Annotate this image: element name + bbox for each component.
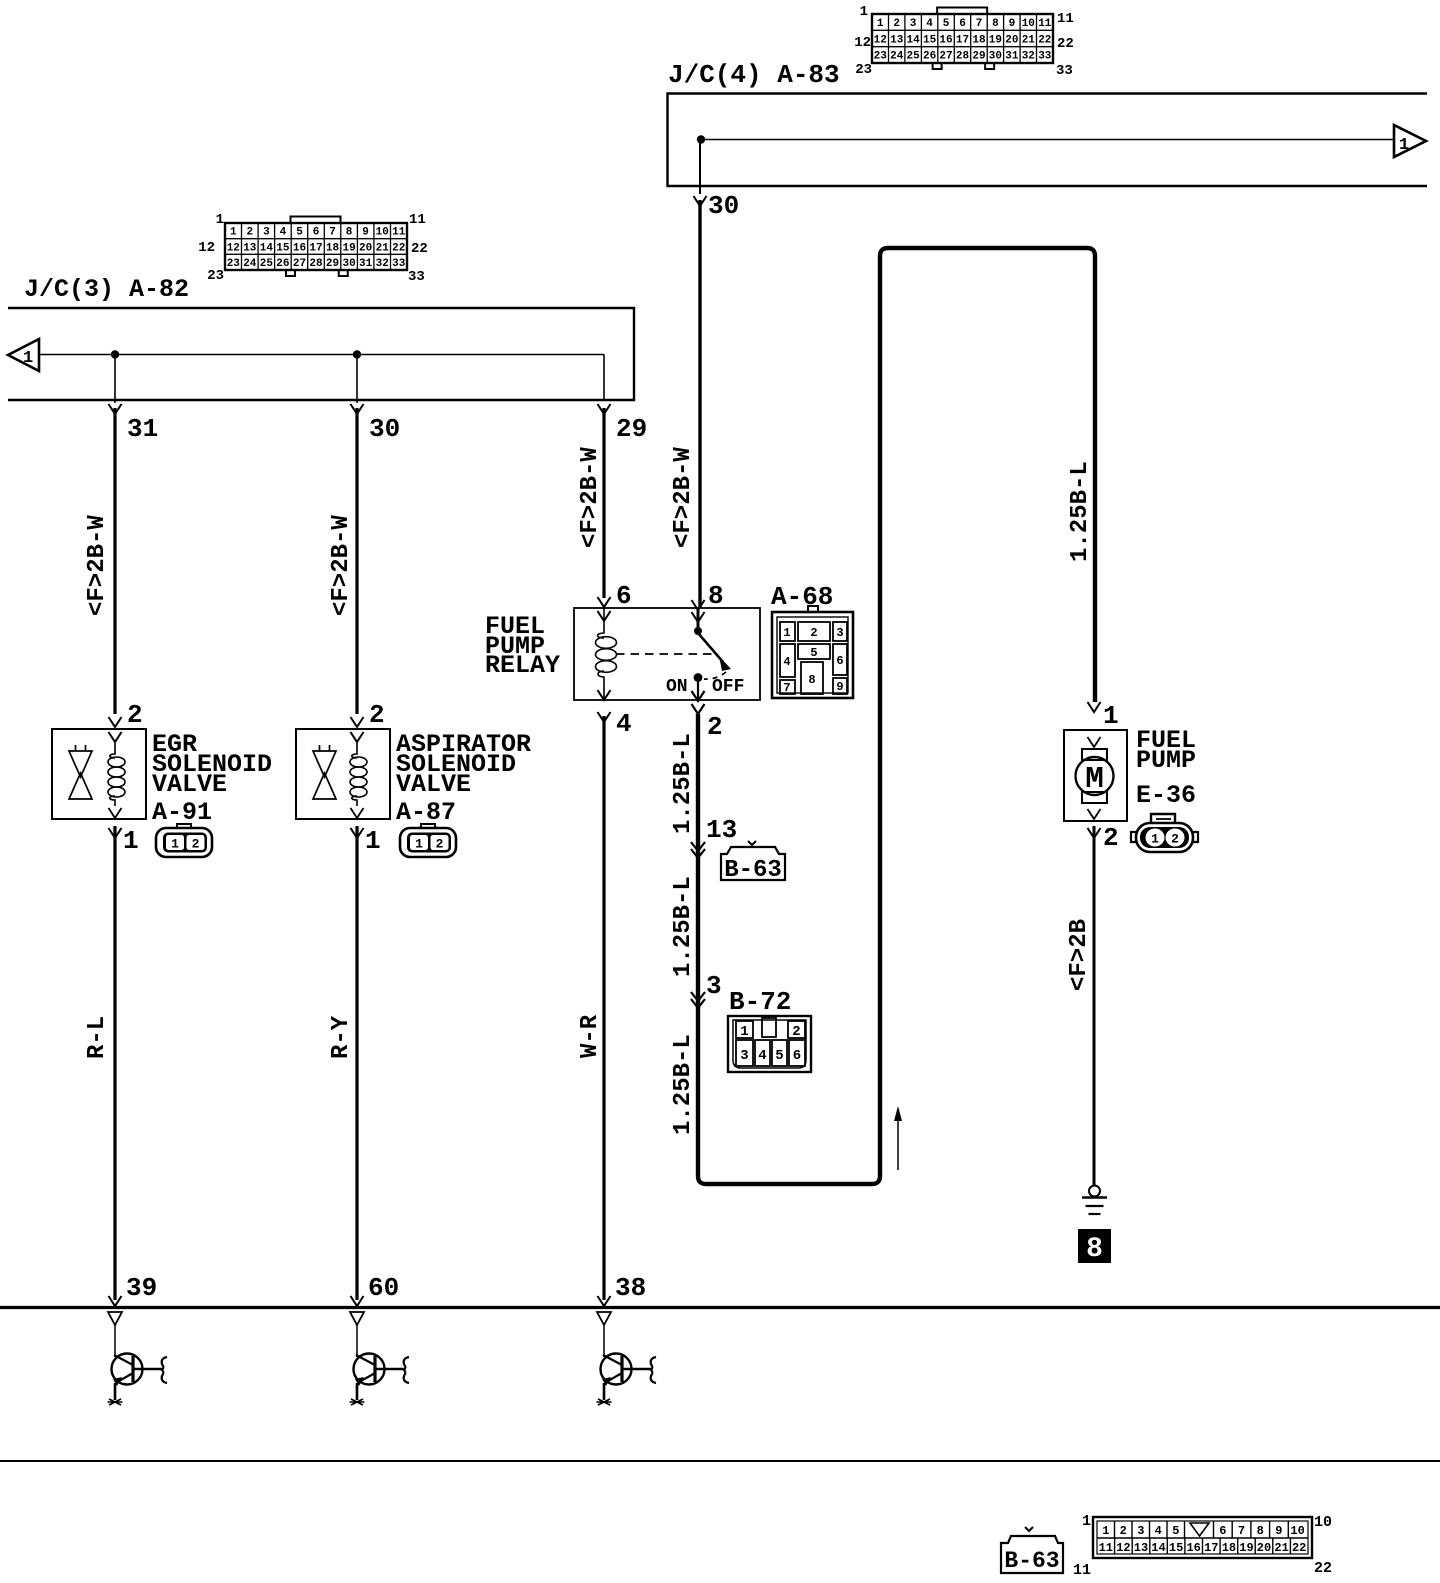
svg-text:7: 7: [976, 18, 983, 30]
svg-text:24: 24: [890, 51, 904, 63]
svg-text:8: 8: [346, 227, 353, 239]
svg-text:A-91: A-91: [152, 798, 212, 827]
svg-text:7: 7: [1238, 1524, 1245, 1538]
wire pin 29 of A-82 down to relay pin 6: [598, 404, 611, 607]
junction 13 (inline connector B-63): [691, 842, 705, 858]
label ASPIRATOR SOLENOID VALVE A-87: [396, 730, 531, 827]
svg-text:1: 1: [877, 18, 884, 30]
svg-text:15: 15: [923, 34, 937, 46]
svg-text:23: 23: [855, 62, 872, 78]
svg-text:19: 19: [1239, 1541, 1253, 1555]
svg-text:4: 4: [758, 1048, 766, 1064]
svg-text:22: 22: [1038, 34, 1051, 46]
svg-text:W-R: W-R: [577, 1014, 604, 1058]
fuel pump pin arrow 1: [1088, 702, 1101, 712]
svg-text:21: 21: [1274, 1541, 1288, 1555]
svg-text:B-72: B-72: [729, 987, 791, 1017]
svg-text:2: 2: [127, 700, 143, 730]
svg-text:6: 6: [313, 227, 320, 239]
svg-text:1: 1: [1399, 136, 1409, 155]
svg-text:31: 31: [359, 258, 373, 270]
svg-text:4: 4: [926, 18, 933, 30]
svg-text:13: 13: [706, 815, 737, 845]
svg-text:22: 22: [411, 241, 428, 257]
connector icon E-36 (1|2): [1131, 814, 1198, 852]
svg-text:11: 11: [409, 212, 426, 228]
ECU boundary line (bottom): [0, 1460, 1440, 1462]
svg-text:5: 5: [810, 646, 817, 660]
svg-text:22: 22: [1314, 1560, 1332, 1577]
svg-text:26: 26: [923, 51, 936, 63]
svg-text:8: 8: [708, 581, 724, 611]
svg-text:4: 4: [280, 227, 287, 239]
svg-text:A-87: A-87: [396, 798, 456, 827]
svg-text:22: 22: [1057, 36, 1074, 52]
svg-text:8: 8: [1257, 1524, 1264, 1538]
svg-text:14: 14: [906, 34, 920, 46]
svg-text:11: 11: [1073, 1562, 1091, 1578]
svg-text:<F>2B: <F>2B: [1066, 919, 1093, 991]
svg-text:1: 1: [1102, 1524, 1109, 1538]
svg-text:17: 17: [309, 242, 322, 254]
svg-text:5: 5: [775, 1048, 783, 1064]
svg-text:21: 21: [1022, 34, 1036, 46]
svg-text:30: 30: [369, 414, 400, 444]
svg-text:27: 27: [293, 258, 306, 270]
svg-text:27: 27: [939, 51, 952, 63]
svg-text:22: 22: [1292, 1541, 1306, 1555]
bus A-82 junction block: [8, 308, 634, 400]
svg-text:32: 32: [1022, 51, 1035, 63]
svg-text:13: 13: [243, 242, 257, 254]
wire pin 31 of A-82 down to EGR solenoid: [109, 354, 122, 727]
svg-text:9: 9: [1275, 1524, 1282, 1538]
svg-text:B-63: B-63: [724, 857, 782, 884]
svg-text:2: 2: [192, 837, 200, 852]
svg-text:17: 17: [956, 34, 969, 46]
fuel pump motor M: [1076, 737, 1114, 838]
svg-text:PUMP: PUMP: [1136, 746, 1196, 775]
svg-text:24: 24: [243, 258, 257, 270]
svg-text:8: 8: [992, 18, 999, 30]
svg-text:6: 6: [1219, 1524, 1226, 1538]
node: junction dot pin 31: [111, 350, 119, 358]
svg-text:1: 1: [860, 4, 868, 20]
svg-text:3: 3: [1137, 1524, 1144, 1538]
svg-text:15: 15: [1169, 1541, 1183, 1555]
relay pin 4 exit arrows: [598, 690, 611, 722]
svg-text:5: 5: [943, 18, 950, 30]
svg-text:2: 2: [810, 626, 817, 640]
svg-text:1: 1: [740, 1024, 748, 1040]
connector icon B-63 (small): [721, 841, 785, 884]
svg-text:25: 25: [260, 258, 274, 270]
fuel pump relay A-68 box: [574, 608, 760, 700]
svg-text:9: 9: [836, 680, 843, 694]
svg-text:ON: ON: [666, 677, 688, 697]
svg-text:21: 21: [376, 242, 390, 254]
connector B-63 pin grid (bottom): [1073, 1513, 1332, 1579]
svg-text:<F>2B-W: <F>2B-W: [328, 515, 355, 616]
svg-text:<F>2B-W: <F>2B-W: [84, 515, 111, 616]
svg-text:3: 3: [263, 227, 270, 239]
svg-text:18: 18: [1222, 1541, 1236, 1555]
svg-text:17: 17: [1204, 1541, 1218, 1555]
svg-text:2: 2: [369, 700, 385, 730]
svg-text:33: 33: [1038, 51, 1052, 63]
connector icon B-63 (bottom): [1001, 1527, 1063, 1574]
svg-text:2: 2: [792, 1024, 800, 1040]
svg-text:22: 22: [392, 242, 405, 254]
transistor Q3 (ECU driver, pin 38): [597, 1312, 657, 1405]
svg-text:13: 13: [1134, 1541, 1148, 1555]
svg-text:31: 31: [127, 414, 158, 444]
svg-text:31: 31: [1005, 51, 1019, 63]
svg-text:33: 33: [408, 269, 425, 285]
svg-text:1: 1: [415, 837, 423, 852]
svg-text:<F>2B-W: <F>2B-W: [670, 447, 697, 548]
svg-text:20: 20: [1005, 34, 1018, 46]
svg-text:1.25B-L: 1.25B-L: [1067, 461, 1094, 562]
svg-text:12: 12: [198, 240, 215, 256]
svg-text:16: 16: [1186, 1541, 1200, 1555]
svg-text:10: 10: [1290, 1524, 1304, 1538]
transistor Q1 (ECU driver, pin 39): [108, 1312, 168, 1405]
connector A-68 face: [772, 606, 853, 698]
connector icon A-87 (1|2): [400, 824, 456, 857]
connector icon A-91 (1|2): [156, 824, 212, 857]
svg-text:1: 1: [1082, 1513, 1091, 1530]
svg-text:11: 11: [1038, 18, 1052, 30]
svg-text:12: 12: [854, 35, 871, 51]
svg-text:2: 2: [1171, 832, 1179, 847]
svg-text:33: 33: [1056, 63, 1073, 79]
transistor Q2 (ECU driver, pin 60): [350, 1312, 410, 1405]
svg-text:6: 6: [836, 654, 843, 668]
svg-text:7: 7: [329, 227, 336, 239]
svg-text:1.25B-L: 1.25B-L: [670, 1034, 697, 1135]
svg-text:4: 4: [783, 655, 790, 669]
svg-text:9: 9: [1009, 18, 1016, 30]
svg-text:11: 11: [1099, 1541, 1113, 1555]
svg-text:3: 3: [740, 1048, 748, 1064]
svg-text:2: 2: [1103, 823, 1119, 853]
svg-text:A-68: A-68: [771, 582, 833, 612]
svg-text:12: 12: [874, 34, 887, 46]
wire pin 30 of A-82 down to aspirator solenoid: [351, 354, 364, 727]
svg-text:12: 12: [1116, 1541, 1130, 1555]
relay coil: [596, 608, 617, 700]
svg-text:28: 28: [309, 258, 323, 270]
svg-text:29: 29: [326, 258, 339, 270]
svg-text:30: 30: [989, 51, 1002, 63]
svg-text:M: M: [1085, 762, 1104, 797]
svg-text:14: 14: [1151, 1541, 1165, 1555]
svg-text:1: 1: [171, 837, 179, 852]
svg-text:10: 10: [1022, 18, 1035, 30]
arrow in 1 (from page): [8, 339, 39, 371]
arrow out 1 (to page): [1394, 125, 1426, 157]
svg-text:4: 4: [1155, 1524, 1162, 1538]
svg-text:2: 2: [1120, 1524, 1127, 1538]
svg-text:16: 16: [293, 242, 306, 254]
ground symbol: [1082, 1186, 1107, 1215]
EGR solenoid valve A-91: [52, 729, 146, 1300]
relay switch (shown OFF): [616, 600, 731, 714]
ECU boundary line (top): [0, 1306, 1440, 1309]
svg-text:9: 9: [362, 227, 369, 239]
svg-text:2: 2: [893, 18, 900, 30]
connector J/C(3) A-82 pin grid: [198, 212, 428, 285]
svg-text:J/C(4) A-83: J/C(4) A-83: [668, 60, 840, 90]
svg-text:32: 32: [376, 258, 389, 270]
svg-text:J/C(3) A-82: J/C(3) A-82: [24, 275, 189, 304]
svg-text:R-Y: R-Y: [328, 1015, 355, 1059]
svg-text:VALVE: VALVE: [396, 770, 471, 799]
svg-text:28: 28: [956, 51, 970, 63]
ECU pin arrow 38: [598, 1296, 611, 1306]
svg-text:3: 3: [910, 18, 917, 30]
svg-text:8: 8: [808, 673, 815, 687]
label EGR SOLENOID VALVE A-91: [152, 730, 272, 827]
svg-text:1: 1: [230, 227, 237, 239]
svg-text:1: 1: [1103, 701, 1119, 731]
svg-text:26: 26: [276, 258, 289, 270]
svg-text:VALVE: VALVE: [152, 770, 227, 799]
svg-text:39: 39: [126, 1273, 157, 1303]
svg-text:25: 25: [906, 51, 920, 63]
svg-text:16: 16: [939, 34, 952, 46]
svg-text:2: 2: [436, 837, 444, 852]
svg-text:B-63: B-63: [1004, 1548, 1059, 1574]
bus A-83 junction block: [668, 94, 1428, 187]
label FUEL PUMP E-36: [1136, 726, 1196, 810]
svg-text:12: 12: [227, 242, 240, 254]
svg-text:OFF: OFF: [712, 677, 744, 697]
svg-text:1: 1: [783, 626, 790, 640]
svg-text:1: 1: [216, 212, 224, 228]
svg-text:5: 5: [1172, 1524, 1179, 1538]
svg-text:1.25B-L: 1.25B-L: [670, 876, 697, 977]
svg-text:19: 19: [342, 242, 355, 254]
annotation arrow (current direction): [894, 1106, 902, 1170]
svg-text:30: 30: [342, 258, 355, 270]
svg-text:30: 30: [708, 191, 739, 221]
svg-text:29: 29: [616, 414, 647, 444]
node: junction dot on A-83 inner line: [697, 135, 705, 143]
svg-text:3: 3: [706, 971, 722, 1001]
aspirator solenoid valve A-87: [296, 729, 390, 1300]
svg-text:<F>2B-W: <F>2B-W: [577, 447, 604, 548]
svg-text:20: 20: [359, 242, 372, 254]
wire (F)2B fuel pump to ground: [1093, 826, 1096, 1185]
svg-text:23: 23: [207, 268, 224, 284]
svg-text:38: 38: [615, 1273, 646, 1303]
svg-text:20: 20: [1257, 1541, 1271, 1555]
svg-text:1: 1: [365, 826, 381, 856]
svg-text:2: 2: [707, 712, 723, 742]
wire pin 30 of A-83 down to relay pin 8: [694, 139, 707, 608]
svg-text:29: 29: [972, 51, 985, 63]
junction 3 (inline connector B-72): [691, 992, 705, 1008]
ECU pin arrow 39: [109, 1296, 122, 1306]
svg-text:2: 2: [246, 227, 253, 239]
wire 1.25B-L from relay pin 2 looping to fuel pump pin 1: [698, 248, 1095, 1184]
svg-text:1: 1: [23, 349, 33, 368]
svg-text:11: 11: [392, 227, 406, 239]
svg-text:3: 3: [836, 626, 843, 640]
svg-text:8: 8: [1086, 1234, 1103, 1265]
svg-text:14: 14: [260, 242, 274, 254]
svg-text:RELAY: RELAY: [485, 651, 560, 680]
svg-text:10: 10: [376, 227, 389, 239]
svg-text:18: 18: [326, 242, 340, 254]
svg-text:6: 6: [616, 581, 632, 611]
svg-text:33: 33: [392, 258, 406, 270]
svg-text:R-L: R-L: [84, 1016, 111, 1059]
svg-text:23: 23: [227, 258, 241, 270]
svg-text:5: 5: [296, 227, 303, 239]
svg-text:11: 11: [1057, 11, 1074, 27]
wire W-R from relay pin 4 to ECU pin 38: [602, 716, 605, 1300]
svg-text:18: 18: [972, 34, 986, 46]
svg-text:6: 6: [793, 1048, 801, 1064]
svg-text:E-36: E-36: [1136, 781, 1196, 810]
label FUEL PUMP RELAY: [485, 612, 560, 680]
svg-text:1.25B-L: 1.25B-L: [670, 733, 697, 834]
svg-text:10: 10: [1314, 1514, 1332, 1531]
ground reference 8 (black box): [1078, 1229, 1111, 1265]
ECU pin arrow 60: [351, 1296, 364, 1306]
svg-text:6: 6: [959, 18, 966, 30]
svg-text:13: 13: [890, 34, 904, 46]
connector J/C(4) A-83 pin grid: [854, 4, 1074, 79]
node: junction dot pin 30: [353, 350, 361, 358]
svg-text:1: 1: [1151, 832, 1159, 847]
svg-text:4: 4: [616, 709, 632, 739]
fuel pump E-36 box: [1064, 730, 1127, 821]
svg-text:1: 1: [123, 826, 139, 856]
connector icon B-72: [728, 1016, 811, 1072]
svg-text:23: 23: [874, 51, 888, 63]
svg-text:19: 19: [989, 34, 1002, 46]
svg-text:15: 15: [276, 242, 290, 254]
svg-text:7: 7: [783, 681, 790, 695]
svg-text:60: 60: [368, 1273, 399, 1303]
